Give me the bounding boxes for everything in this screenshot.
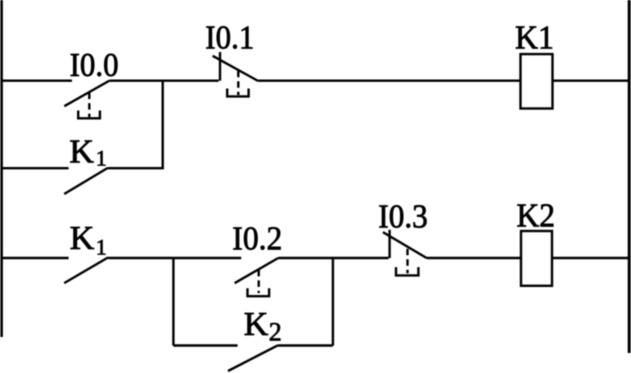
- K2 branch bottom wire right segment: [278, 344, 333, 346]
- wire rung2 from left rail to contact K1: [1, 257, 69, 259]
- contact I0.2 normally-open blade: [235, 258, 279, 283]
- wire rung1 from I0.1 to coil K1: [258, 79, 520, 81]
- svg-text:1: 1: [96, 235, 107, 260]
- wire rung2 from I0.3 to coil K2: [427, 257, 521, 259]
- pushbutton I0.0 button cap: [78, 111, 100, 119]
- pushbutton I0.1 dashed actuator link: [237, 71, 239, 95]
- left power rail: [0, 0, 3, 337]
- pushbutton I0.2 dashed actuator link: [258, 270, 260, 293]
- branch vertical wire from rung1 down to K1 contact branch: [161, 81, 163, 169]
- contact I0.1 normally-closed blade: [213, 56, 259, 81]
- svg-text:K: K: [244, 306, 269, 343]
- wire rung1 from I0.0 to contact I0.1 (passes branch node): [110, 79, 219, 81]
- pushbutton I0.0 dashed actuator link: [88, 93, 90, 117]
- wire rung1 from coil K1 to right rail: [553, 79, 631, 81]
- K2 branch right vertical wire down from rung2: [332, 258, 334, 346]
- svg-text:K: K: [70, 220, 95, 257]
- contact K2 normally-open blade (branch): [228, 345, 278, 371]
- pushbutton I0.3 button cap: [396, 267, 418, 275]
- branch wire from contact K1 to branch vertical: [108, 167, 164, 169]
- contact K1 normally-open blade (rung2): [64, 257, 108, 283]
- svg-text:I0.2: I0.2: [232, 221, 282, 258]
- contact I0.3 normally-closed stop bar: [388, 230, 390, 258]
- svg-text:K: K: [69, 133, 94, 170]
- wire rung2 from coil K2 to right rail: [552, 257, 630, 259]
- svg-text:K2: K2: [517, 197, 556, 234]
- pushbutton I0.2 button cap: [248, 288, 270, 296]
- contact I0.3 normally-closed blade: [383, 232, 427, 258]
- svg-text:I0.3: I0.3: [378, 199, 428, 236]
- svg-text:1: 1: [96, 146, 107, 171]
- pushbutton I0.1 button cap: [227, 89, 248, 97]
- svg-text:I0.1: I0.1: [205, 19, 254, 56]
- wire rung2 from K1 to contact I0.2 (passes branch node): [108, 257, 241, 259]
- wire rung2 from I0.2 to contact I0.3 (passes branch node): [278, 257, 389, 259]
- K2 branch left vertical wire down from rung2: [172, 258, 174, 346]
- wire rung1 from left rail to contact I0.0: [1, 79, 73, 81]
- branch wire from left rail to contact K1 (rung1 parallel branch): [1, 167, 69, 169]
- contact K1 normally-open blade (rung1 branch): [64, 168, 107, 194]
- right power rail: [628, 0, 631, 353]
- svg-text:I0.0: I0.0: [70, 47, 119, 84]
- coil K2 rectangle: [521, 231, 552, 286]
- coil K1 rectangle: [521, 54, 553, 108]
- svg-text:2: 2: [269, 318, 282, 347]
- svg-text:K1: K1: [515, 19, 554, 56]
- K2 branch bottom wire left segment: [173, 344, 237, 346]
- pushbutton I0.3 dashed actuator link: [406, 249, 408, 274]
- contact I0.1 normally-closed stop bar: [219, 52, 221, 81]
- contact I0.0 normally-open blade: [64, 81, 109, 107]
